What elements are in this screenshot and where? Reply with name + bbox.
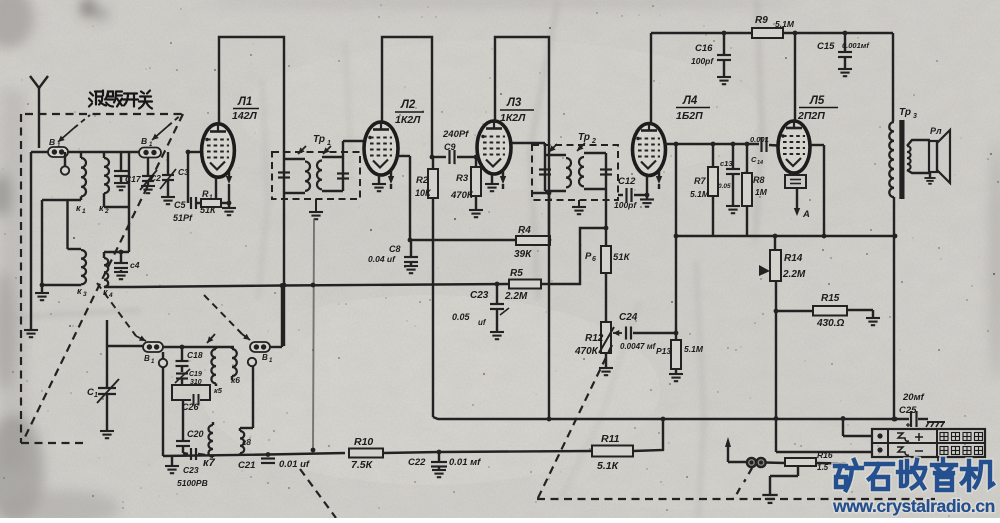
svg-text:R9: R9 [755,15,768,26]
svg-text:470К: 470К [450,190,474,201]
svg-text:Л3: Л3 [506,97,522,109]
svg-text:142Л: 142Л [232,110,258,122]
svg-text:0.05: 0.05 [452,312,471,322]
svg-text:С18: С18 [187,350,203,360]
svg-text:В: В [144,354,150,363]
svg-text:6: 6 [592,256,596,263]
svg-text:С22: С22 [408,457,426,468]
svg-text:1: 1 [82,208,86,215]
svg-text:С9: С9 [444,142,456,152]
svg-text:100рf: 100рf [614,200,637,210]
svg-text:С17: С17 [125,174,142,184]
svg-text:С3: С3 [178,167,189,177]
svg-text:5.1М: 5.1М [690,189,710,199]
svg-text:5.1К: 5.1К [597,460,620,472]
svg-text:1Б2П: 1Б2П [676,110,703,122]
svg-text:Тр: Тр [313,134,325,145]
svg-text:R12: R12 [585,333,604,344]
svg-text:1К2Л: 1К2Л [500,112,526,124]
svg-text:240Рf: 240Рf [442,129,469,140]
svg-text:С: С [87,387,94,398]
svg-text:С21: С21 [238,460,255,471]
svg-text:0.001мf: 0.001мf [842,41,870,50]
svg-text:Р13: Р13 [656,346,671,356]
svg-text:Л5: Л5 [809,95,825,107]
svg-text:0.001: 0.001 [750,135,769,144]
svg-text:С20: С20 [187,429,204,439]
svg-text:R7: R7 [694,176,706,186]
svg-text:к7: к7 [203,457,216,469]
svg-text:Л2: Л2 [400,99,416,111]
svg-text:0.0047 мf: 0.0047 мf [620,342,657,351]
svg-text:к5: к5 [214,386,223,395]
svg-text:Л4: Л4 [682,95,698,107]
svg-text:2: 2 [104,208,109,215]
svg-text:0.01 uf: 0.01 uf [279,459,310,470]
svg-text:1: 1 [209,194,213,201]
svg-text:39К: 39К [514,249,532,260]
svg-text:2: 2 [591,138,596,145]
svg-text:R4: R4 [518,225,531,236]
svg-text:1К2Л: 1К2Л [395,114,421,126]
svg-text:310: 310 [190,379,202,386]
svg-text:470К: 470К [574,346,599,357]
svg-text:С15: С15 [817,41,835,52]
svg-text:R10: R10 [354,436,373,448]
svg-text:51Рf: 51Рf [173,213,193,223]
svg-text:с13: с13 [720,159,733,168]
svg-text:0.05: 0.05 [718,183,731,190]
svg-text:430.Ω: 430.Ω [816,318,844,329]
svg-text:с4: с4 [130,260,140,270]
svg-text:С5: С5 [174,200,186,210]
svg-text:к6: к6 [231,375,240,385]
svg-text:В: В [49,137,55,147]
svg-text:R3: R3 [456,173,469,184]
svg-text:С2: С2 [150,173,161,183]
svg-text:51К: 51К [613,252,631,263]
svg-text:1М: 1М [755,187,768,197]
svg-text:R: R [202,189,209,199]
svg-text:С8: С8 [389,244,401,254]
svg-text:3: 3 [913,113,917,120]
svg-text:Тр: Тр [899,107,911,118]
svg-text:10К: 10К [415,188,432,198]
svg-text:Р: Р [585,251,592,262]
svg-text:4: 4 [108,292,113,299]
svg-text:R2: R2 [416,175,429,186]
svg-text:2П2П: 2П2П [797,110,825,122]
svg-text:С23: С23 [470,290,489,301]
svg-text:С16: С16 [695,43,713,54]
svg-text:2.2М: 2.2М [504,291,528,302]
svg-text:С24: С24 [619,312,638,323]
svg-text:С19: С19 [189,371,202,378]
svg-text:uf: uf [478,318,487,327]
svg-text:С23: С23 [183,465,199,475]
svg-text:www.crystalradio.cn: www.crystalradio.cn [832,496,995,516]
svg-text:к: к [76,203,81,213]
svg-text:Л1: Л1 [237,96,252,108]
svg-text:1: 1 [327,140,331,147]
svg-text:А: А [802,209,810,220]
svg-text:С26: С26 [182,402,200,412]
svg-text:С12: С12 [618,176,636,187]
svg-text:R14: R14 [784,253,803,264]
svg-text:3: 3 [83,291,87,298]
svg-text:20мf: 20мf [902,392,925,403]
svg-text:к: к [77,286,82,296]
svg-text:В: В [141,136,147,146]
svg-text:к: к [103,287,108,297]
svg-text:Рл: Рл [930,126,942,136]
svg-text:7.5К: 7.5К [351,459,374,471]
svg-text:R15: R15 [821,293,840,304]
svg-text:100рf: 100рf [691,56,714,66]
svg-text:R5: R5 [510,268,523,279]
svg-text:R8: R8 [753,175,765,185]
svg-text:Тр: Тр [578,132,590,143]
svg-text:R16: R16 [817,450,833,460]
svg-text:2.2М: 2.2М [782,269,806,280]
svg-text:51К: 51К [200,205,217,215]
svg-text:14: 14 [757,160,763,166]
svg-text:к: к [99,203,104,213]
svg-text:R11: R11 [601,433,620,445]
svg-text:1: 1 [94,392,98,399]
svg-text:5.1М: 5.1М [684,344,704,354]
svg-text:В: В [262,353,268,362]
svg-text:1.5: 1.5 [817,463,829,472]
svg-text:С25: С25 [899,405,917,416]
svg-text:5.1М: 5.1М [775,19,795,29]
svg-text:к8: к8 [242,437,251,447]
svg-text:5100РВ: 5100РВ [177,478,208,488]
svg-text:0.04 uf: 0.04 uf [368,254,396,264]
svg-text:0.01 мf: 0.01 мf [449,457,481,468]
